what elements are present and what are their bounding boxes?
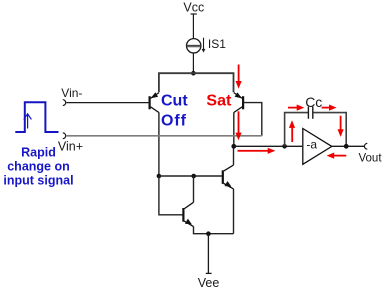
current arrow down at Q2 collector (bottom) [235, 111, 241, 140]
svg-text:-a: -a [306, 138, 317, 152]
wire feedback right vertical [313, 113, 346, 147]
current arrow down at Q2 collector (top) [236, 65, 242, 89]
svg-text:Vout: Vout [359, 153, 383, 165]
junction dot feedback left [282, 144, 287, 149]
wire Q1 collector down [158, 112, 160, 176]
junction dot summing node [231, 144, 236, 149]
junction dot Q1 collector / mirror [157, 174, 162, 179]
wire Q2 collector down to node [233, 112, 235, 146]
wire emitter rail [159, 73, 234, 92]
waveform pulse (input signal) [15, 102, 58, 132]
transistor Q3 NPN [183, 202, 193, 226]
terminal Vin- [63, 100, 66, 106]
svg-text:Off: Off [161, 112, 187, 129]
wire node to op-amp input [234, 145, 302, 147]
junction dot Q3 collector [191, 174, 196, 179]
transistor Q4 NPN [223, 165, 234, 189]
current arrow down feedback right [338, 116, 344, 137]
junction dot rail/IS1 [191, 71, 196, 76]
capacitor Cc [308, 107, 312, 119]
wire Q3 collector up [193, 176, 195, 202]
current arrow right at summing node [238, 148, 276, 154]
svg-text:Vin+: Vin+ [58, 139, 83, 153]
wire Q2 base loop [243, 103, 262, 136]
svg-text:Cc: Cc [305, 94, 322, 110]
junction dot output node [344, 144, 349, 149]
current arrow right above Cc left [288, 105, 304, 111]
svg-text:change on: change on [7, 160, 70, 174]
wire left down to Q3 base [159, 176, 184, 215]
svg-text:Vee: Vee [198, 276, 220, 290]
current arrow up feedback left [289, 120, 295, 142]
wire Q4 collector up to node [233, 146, 235, 165]
terminal Vin+ [63, 133, 66, 139]
wire mirror top [159, 175, 222, 177]
current arrow right above Cc right [322, 105, 337, 111]
current source IS1 [187, 38, 204, 53]
wire IS1 to rail [192, 53, 194, 73]
Vcc pin tick [191, 13, 197, 15]
wire feedback left vertical [285, 113, 308, 147]
svg-text:Vcc: Vcc [183, 1, 204, 15]
terminal Vout [364, 143, 367, 149]
svg-text:Cut: Cut [161, 93, 188, 110]
wire Q3 emitter to bottom rail [194, 226, 234, 233]
svg-text:Sat: Sat [206, 93, 232, 110]
transistor Q1 Cut-Off PNP [150, 93, 159, 113]
waveform arrow [24, 114, 32, 129]
junction dot Vee rail [206, 231, 211, 236]
svg-text:IS1: IS1 [208, 37, 226, 51]
svg-text:input signal: input signal [3, 173, 73, 187]
op-amp U1 [303, 129, 332, 165]
wire Vin- to Q1 base [66, 102, 149, 104]
wire Vcc lead to IS1 [192, 14, 194, 39]
wire Q4 emitter down [233, 189, 235, 234]
Vee pin tick [206, 272, 212, 274]
wire Vee lead [207, 234, 209, 274]
svg-text:Vin-: Vin- [61, 86, 82, 100]
svg-text:Rapid: Rapid [21, 146, 56, 160]
wire op-amp output [332, 145, 365, 147]
current arrow left at output [327, 153, 347, 159]
transistor Q2 Sat PNP [234, 93, 243, 113]
wire Vin+ net (gray) [66, 135, 261, 137]
